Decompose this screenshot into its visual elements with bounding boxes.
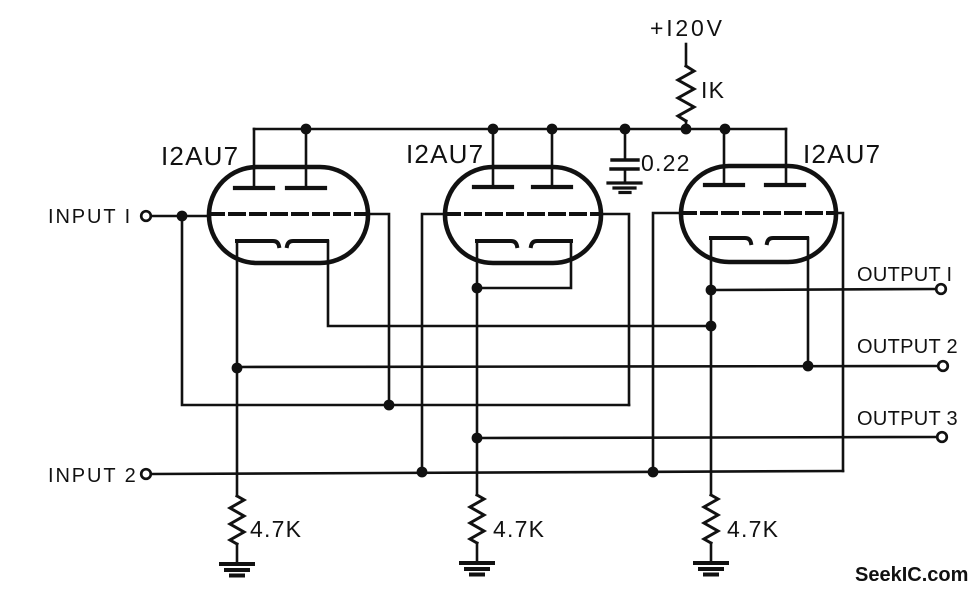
tube V3 left cathode (711, 238, 751, 243)
wire INPUT 1 to V1 grid (151, 215, 209, 218)
capacitor C1 0.22 plates (611, 160, 638, 169)
junction dot bus at capacitor C1 (620, 124, 631, 135)
tube V3 right cathode (767, 238, 807, 243)
junction dot bus at V1 right plate (301, 124, 312, 135)
wire V3 left grid drop (653, 213, 681, 472)
ground symbol at capacitor C1 (608, 183, 641, 193)
wire tube V3 left plate lead (723, 129, 726, 185)
terminal OUTPUT 3 (open circle) (937, 432, 947, 442)
junction dot V1 right grid on grid bus (384, 400, 395, 411)
junction dot V2 cathode at OUTPUT 3 line (472, 433, 483, 444)
wire V1 right grid drop (368, 214, 389, 405)
svg-text:I2AU7: I2AU7 (406, 139, 484, 169)
wire V2 cathode down to resistor R3 (476, 288, 479, 495)
svg-text:0.22: 0.22 (641, 150, 691, 176)
svg-text:IK: IK (701, 77, 725, 103)
svg-text:OUTPUT 3: OUTPUT 3 (857, 408, 958, 430)
value label 1K (701, 77, 725, 103)
tube V2 left plate (474, 185, 512, 189)
junction dot V2 cathode tie (472, 283, 483, 294)
wire capacitor C1 bottom lead (624, 169, 627, 182)
tube V2 right cathode (531, 241, 571, 246)
label INPUT 1 (48, 206, 132, 228)
label INPUT 2 (48, 465, 138, 487)
wire tube V3 right plate lead (785, 129, 788, 185)
wire V1 right cathode cross link to V3 (328, 241, 711, 326)
junction dot bus at V2 right plate (547, 124, 558, 135)
wire B+ bus horizontal (254, 128, 786, 131)
ground symbol at R3 (461, 563, 493, 575)
tube V3 12AU7 envelope (681, 166, 836, 262)
value label 0.22 (641, 150, 691, 176)
tube V1 right cathode (287, 241, 327, 246)
junction dot cross link at V3 cathode lead (706, 321, 717, 332)
tube V3 right plate (766, 183, 804, 187)
wire V2 left grid drop (422, 214, 445, 472)
terminal INPUT 1 (open circle) (141, 211, 151, 221)
wire OUTPUT 2 (237, 366, 939, 367)
tube V1 12AU7 envelope (209, 167, 368, 263)
wire V2 right grid riser (601, 214, 629, 405)
wire OUTPUT 3 (477, 437, 938, 438)
ground symbol at R4 (695, 563, 727, 575)
resistor R3 4.7K zigzag (470, 495, 484, 543)
svg-text:INPUT 2: INPUT 2 (48, 465, 138, 487)
svg-text:INPUT I: INPUT I (48, 206, 132, 228)
wire V3 left cathode down to resistor R4 (710, 238, 713, 495)
svg-text:+I20V: +I20V (650, 15, 725, 41)
junction dot V3 left grid at INPUT 2 (648, 467, 659, 478)
tube V2 12AU7 envelope (445, 167, 601, 263)
svg-text:4.7K: 4.7K (727, 516, 779, 542)
wire INPUT 2 horizontal (151, 471, 843, 474)
tube V2 right plate (533, 185, 571, 189)
wire R2 bottom lead (236, 544, 239, 562)
tube V3 grid (dashed) (681, 211, 836, 215)
label OUTPUT 1 (857, 264, 952, 286)
resistor R4 4.7K zigzag (704, 495, 718, 543)
tube V1 left cathode (237, 241, 279, 246)
label OUTPUT 3 (857, 408, 958, 430)
tube V1 right plate (287, 186, 325, 190)
junction dot V1 left cathode at OUTPUT 2 line (232, 363, 243, 374)
label OUTPUT 2 (857, 336, 958, 358)
svg-text:OUTPUT 2: OUTPUT 2 (857, 336, 958, 358)
wire INPUT 1 drop to grid bus (182, 216, 629, 405)
label V1 12AU7 (161, 141, 239, 171)
svg-text:I2AU7: I2AU7 (161, 141, 239, 171)
wire tube V1 left plate lead (253, 129, 256, 188)
wire R4 bottom lead (710, 543, 713, 561)
svg-text:4.7K: 4.7K (250, 516, 302, 542)
wire V3 right cathode to OUTPUT 2 (807, 238, 810, 366)
tube V1 grid (dashed) (209, 212, 368, 216)
junction dot V2 left grid at INPUT 2 (417, 467, 428, 478)
svg-text:I2AU7: I2AU7 (803, 139, 881, 169)
value label R3 4.7K (493, 516, 545, 542)
wire tube V2 right plate lead (551, 129, 554, 187)
junction dot bus at V2 left plate (488, 124, 499, 135)
junction dot V3 left cathode at OUTPUT 1 (706, 285, 717, 296)
wire V2 cathode tie box (477, 241, 571, 288)
node +120V supply label (650, 15, 725, 41)
resistor R1 1K zigzag (678, 66, 694, 121)
junction dot bus at V3 left plate (720, 124, 731, 135)
wire R3 bottom lead (476, 543, 479, 561)
wire V3 right grid drop (836, 213, 843, 471)
ground symbol at R2 (221, 564, 253, 576)
tube V3 left plate (705, 183, 743, 187)
terminal INPUT 2 (open circle) (141, 469, 151, 479)
svg-text:SeekIC.com: SeekIC.com (855, 564, 968, 586)
svg-text:4.7K: 4.7K (493, 516, 545, 542)
wire capacitor C1 top lead (624, 129, 627, 158)
tube V1 left plate (235, 186, 273, 190)
junction dot bus at resistor R1 (681, 124, 692, 135)
tube V2 grid (dashed) (445, 212, 601, 216)
resistor R2 4.7K zigzag (230, 496, 244, 544)
watermark SeekIC.com (855, 564, 968, 586)
wire from +120V to resistor R1 top (685, 44, 688, 66)
terminal OUTPUT 1 (open circle) (936, 284, 946, 294)
tube V2 left cathode (477, 241, 517, 246)
label V2 12AU7 (406, 139, 484, 169)
label V3 12AU7 (803, 139, 881, 169)
wire V1 left cathode to resistor R2 (236, 241, 239, 496)
wire tube V2 left plate lead (492, 129, 495, 187)
wire resistor R1 bottom to B+ bus (685, 121, 688, 129)
junction dot V3 right cathode at OUTPUT 2 (803, 361, 814, 372)
value label R2 4.7K (250, 516, 302, 542)
value label R4 4.7K (727, 516, 779, 542)
svg-text:OUTPUT I: OUTPUT I (857, 264, 952, 286)
terminal OUTPUT 2 (open circle) (938, 361, 948, 371)
junction dot INPUT 1 node (177, 211, 188, 222)
wire OUTPUT 1 (711, 289, 937, 290)
wire tube V1 right plate lead (305, 129, 308, 188)
